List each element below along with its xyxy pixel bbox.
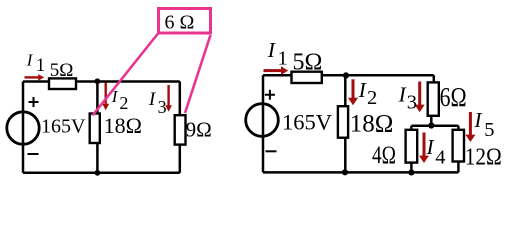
svg-text:6Ω: 6Ω: [440, 82, 467, 112]
svg-text:2: 2: [119, 93, 128, 113]
svg-text:12Ω: 12Ω: [465, 145, 502, 171]
svg-text:4: 4: [435, 146, 445, 168]
svg-text:18Ω: 18Ω: [350, 110, 394, 137]
svg-text:5: 5: [484, 119, 494, 141]
svg-text:3: 3: [158, 97, 167, 117]
svg-text:I: I: [26, 51, 34, 70]
svg-text:I: I: [358, 78, 367, 102]
svg-text:9Ω: 9Ω: [186, 118, 212, 142]
svg-text:165V: 165V: [282, 109, 332, 134]
svg-text:I: I: [473, 108, 482, 132]
svg-text:2: 2: [367, 87, 377, 109]
svg-text:I: I: [398, 82, 407, 106]
svg-text:1: 1: [36, 56, 45, 76]
svg-text:I: I: [148, 89, 157, 110]
svg-text:I: I: [267, 38, 276, 62]
svg-text:4Ω: 4Ω: [372, 142, 396, 169]
svg-text:5Ω: 5Ω: [50, 60, 74, 81]
svg-text:1: 1: [278, 48, 288, 70]
svg-text:6 Ω: 6 Ω: [165, 12, 195, 34]
svg-text:5Ω: 5Ω: [293, 50, 323, 76]
svg-text:165V: 165V: [41, 115, 86, 137]
svg-text:I: I: [426, 135, 435, 159]
svg-text:18Ω: 18Ω: [104, 113, 142, 138]
svg-text:3: 3: [407, 92, 417, 114]
